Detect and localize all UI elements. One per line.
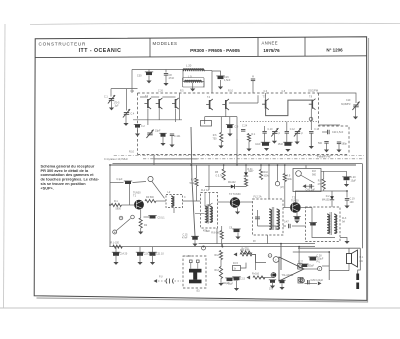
- FM output link drop: [153, 155, 155, 159]
- trimmer capacitor C3: [146, 130, 153, 138]
- resistor R2 750: [139, 218, 142, 228]
- FL2 1A core line b: [207, 204, 209, 224]
- transistor T5: [290, 202, 301, 213]
- volume pot circle: [296, 171, 302, 177]
- resistor R16 1k5: [253, 276, 265, 279]
- svg-text:L 9: L 9: [188, 75, 192, 79]
- capacitor C5 0.1: [148, 216, 156, 219]
- wire R8 top: [221, 226, 223, 231]
- svg-text:R.15: R.15: [233, 263, 239, 265]
- transistor FM stage 4: [206, 99, 213, 110]
- wire C30a gnd lead: [272, 283, 274, 286]
- svg-text:(E): (E): [197, 291, 200, 293]
- svg-text:R.L-320: R.L-320: [111, 242, 120, 245]
- wire T5 collector up: [295, 191, 323, 202]
- svg-text:P.U: P.U: [159, 277, 163, 279]
- trimmer capacitor C4: [123, 109, 130, 117]
- capacitor C5 fm: [159, 133, 166, 137]
- wire FL2 2A to T5: [283, 207, 290, 209]
- svg-text:15nF: 15nF: [278, 144, 284, 146]
- wire box feed vertical: [298, 247, 300, 264]
- resistor below C24: [247, 134, 250, 142]
- junction circle M: [119, 216, 123, 220]
- wire D2 top: [331, 191, 333, 196]
- ground below C15b: [192, 244, 197, 247]
- svg-text:FL2 2A: FL2 2A: [254, 196, 262, 199]
- capacitor C8: [164, 74, 168, 76]
- coil L2 winding: [171, 196, 174, 207]
- ferrite terminal stub a: [190, 263, 192, 269]
- wire T3 collector: [240, 201, 252, 203]
- wire C20 down: [346, 181, 348, 185]
- diode D3 MA7: [244, 172, 248, 176]
- resistor RL 320 on bus: [113, 245, 123, 248]
- capacitor C15 100uF: [232, 277, 240, 280]
- junction dot 7: [260, 164, 262, 166]
- capacitor C21 10uF: [148, 252, 156, 256]
- wire R14 out: [252, 254, 256, 270]
- resistor below D3: [244, 178, 247, 186]
- junction dot 16: [346, 190, 348, 192]
- junction circle N: [131, 215, 135, 219]
- wire R4 to L2: [156, 200, 166, 202]
- wire FM internal drop a3: [175, 109, 177, 123]
- svg-text:0,47: 0,47: [284, 221, 289, 224]
- wire L20 to node: [203, 70, 212, 72]
- junction circle osc: [309, 117, 313, 121]
- wire R15 link: [241, 263, 247, 268]
- ground below C15: [234, 288, 239, 291]
- wire T5 to FL3: [301, 207, 312, 209]
- wire L2 bottom drop: [173, 208, 175, 214]
- wire C20 leads: [322, 131, 328, 133]
- wire C8 feed: [165, 70, 167, 73]
- wire L9 left leg: [183, 71, 186, 82]
- FL2 2A core line a: [271, 207, 273, 230]
- FL2 2A tuning capacitor: [255, 217, 260, 219]
- wire R10 top: [260, 165, 262, 170]
- trimmer P2 fm: [294, 128, 301, 136]
- speaker feed stub: [348, 248, 350, 253]
- wire FM internal drop a2: [147, 109, 149, 126]
- capacitor C15b 47nF: [191, 236, 199, 240]
- wire T5 emitter: [296, 213, 298, 217]
- capacitor T5 emitter: [293, 217, 300, 220]
- junction dot 13: [280, 243, 282, 245]
- wire P1 lead: [273, 133, 275, 141]
- wire R6 lead: [220, 142, 222, 146]
- capacitor C27 100uF: [301, 264, 308, 267]
- wire C19b top: [346, 191, 348, 198]
- resistor R9 27k: [322, 179, 325, 189]
- wire slanted AGC: [117, 219, 131, 231]
- junction dot 3: [236, 164, 238, 166]
- wire P2 lead: [296, 133, 298, 141]
- ground below P2: [295, 142, 300, 145]
- svg-text:C20 1,5nF: C20 1,5nF: [332, 131, 344, 134]
- capacitor osc feed top: [251, 79, 255, 81]
- junction dot 14: [298, 246, 300, 248]
- junction circle T7: [273, 257, 279, 263]
- wire C10 top lead: [264, 126, 266, 131]
- wire C3 stub: [110, 182, 124, 184]
- svg-text:G 5,7k: G 5,7k: [216, 176, 224, 178]
- transistor FM stage 5: [222, 99, 229, 110]
- jack dash link 2: [175, 280, 182, 282]
- ferrite terminal stub b: [197, 263, 199, 269]
- svg-text:FM: FM: [131, 90, 134, 93]
- svg-text:R4 500: R4 500: [146, 196, 154, 199]
- junction dot 4: [268, 164, 270, 166]
- capacitor C31 b: [278, 280, 285, 283]
- wire FM stage stub up: [257, 95, 259, 103]
- svg-text:R.10: R.10: [228, 91, 234, 93]
- resistor R12a: [219, 251, 222, 260]
- FL2 2A bottom wire: [258, 226, 277, 230]
- wire R8 bottom: [221, 239, 223, 247]
- trimmer capacitor C2 input: [108, 95, 115, 103]
- resistor R10 100k: [259, 170, 262, 180]
- ferrite rod antenna: [189, 269, 202, 284]
- chassis dash line lower: [143, 158, 364, 160]
- svg-text:C5 0,1: C5 0,1: [158, 217, 166, 220]
- wire C16 feed: [212, 71, 221, 76]
- wire R3 top: [196, 165, 198, 178]
- junction dot 11: [222, 246, 224, 248]
- wire C24b right: [292, 225, 306, 227]
- wire FM internal drop v1: [178, 93, 180, 120]
- svg-text:C.26: C.26: [158, 91, 164, 93]
- FM module dashed border left: [137, 93, 139, 155]
- wire C31b gnd lead: [281, 283, 283, 287]
- wire C17 lead: [326, 143, 328, 149]
- junction dot 8: [277, 164, 279, 166]
- header divider 3: [304, 37, 306, 56]
- svg-text:C.15: C.15: [240, 279, 246, 281]
- svg-text:C.18: C.18: [314, 129, 320, 131]
- FL2 1A primary winding: [205, 206, 208, 223]
- wire R12b gnd lead: [220, 279, 222, 284]
- wire top supply rail: [132, 69, 183, 71]
- svg-text:500k: 500k: [190, 183, 196, 185]
- junction dot 6: [245, 164, 247, 166]
- resistor R8 6k8: [220, 231, 223, 240]
- FM module small box: [201, 121, 212, 127]
- wire R5 top: [223, 165, 225, 169]
- capacitor C20 10uF: [342, 177, 350, 180]
- wire into FL2 left: [195, 213, 205, 215]
- wire FM long drop left: [191, 127, 195, 236]
- ground FL3: [344, 241, 349, 244]
- svg-text:MA102: MA102: [322, 198, 330, 201]
- svg-text:CAL.2µF: CAL.2µF: [306, 188, 316, 191]
- svg-text:R.1: R.1: [114, 200, 118, 203]
- ground below C1: [135, 134, 140, 137]
- header divider 2: [257, 38, 259, 57]
- arrow feedback R16: [247, 276, 251, 280]
- ground below C23 250: [137, 262, 142, 265]
- wire C22 lead: [338, 144, 340, 150]
- wire cap C23 250 gnd lead: [139, 256, 141, 262]
- wire apex out: [304, 268, 318, 270]
- junction dot 1: [109, 164, 111, 166]
- wire osc couple: [319, 124, 341, 126]
- svg-text:L.7A: L.7A: [186, 255, 191, 258]
- junction dot 12: [203, 246, 205, 248]
- svg-text:R+1k5: R+1k5: [252, 272, 260, 275]
- wire R12 link: [220, 260, 222, 267]
- wire FM internal drop c: [225, 108, 227, 117]
- jack dash link: [158, 280, 166, 282]
- wire FM long drop right: [236, 139, 238, 165]
- FL3 primary winding: [327, 214, 330, 233]
- svg-text:100k: 100k: [264, 176, 270, 178]
- wire cap C21 10 feed: [152, 247, 154, 253]
- svg-text:C.1: C.1: [104, 96, 108, 99]
- capacitor C14 20uF: [112, 252, 120, 256]
- junction circle B: [301, 279, 305, 283]
- wire antenna input: [111, 88, 138, 90]
- output jack: [356, 274, 359, 290]
- ferrite antenna terminals: [190, 260, 200, 263]
- wire diode row b: [235, 185, 246, 188]
- wire FL2 2A to bus: [267, 235, 269, 244]
- capacitor C1 15pF: [134, 124, 141, 127]
- wire C5 left lead: [144, 216, 150, 218]
- ground below D1 chain: [246, 149, 251, 152]
- FL2 2A primary winding: [269, 209, 272, 230]
- wire FM internal row 3: [205, 116, 237, 118]
- ground below C5: [160, 143, 165, 146]
- svg-text:R14 4,7k: R14 4,7k: [240, 249, 250, 252]
- FL2 1A secondary winding: [210, 206, 213, 223]
- svg-text:N° 1206: N° 1206: [326, 48, 343, 53]
- svg-text:C19: C19: [346, 99, 351, 102]
- svg-text:C.27: C.27: [298, 261, 304, 264]
- ground below C17: [324, 150, 329, 153]
- svg-text:9V: 9V: [253, 241, 256, 243]
- svg-text:R.8 6k8: R.8 6k8: [211, 232, 220, 235]
- wire cap C14 20 feed: [115, 247, 117, 253]
- wire C12 top lead: [286, 122, 288, 132]
- svg-text:R.34: R.34: [248, 169, 254, 171]
- wire C10 mid lead: [264, 133, 266, 142]
- wire D1 chain lead: [248, 142, 250, 149]
- speaker HP1: [347, 250, 358, 267]
- svg-text:9A: 9A: [342, 221, 345, 224]
- volume pot wiper: [301, 175, 315, 183]
- inductor L9: [185, 80, 202, 83]
- IF transformer FL2 2A box: [253, 199, 284, 235]
- FL2 2A cap leads: [257, 210, 259, 226]
- inductor L20: [183, 69, 204, 72]
- svg-text:ANNEE: ANNEE: [262, 41, 278, 46]
- svg-text:MODELES: MODELES: [153, 41, 178, 46]
- wire R1 to T1: [122, 204, 135, 206]
- svg-text:5600: 5600: [116, 208, 122, 211]
- capacitor C19b: [345, 199, 349, 201]
- wire D2 net: [324, 190, 347, 192]
- capacitor C12: [285, 132, 289, 134]
- diode D2: [330, 196, 334, 200]
- resistor R6 750: [220, 133, 223, 143]
- arrow right C29: [318, 282, 322, 286]
- capacitor C24b 0.47: [289, 224, 291, 228]
- wire C19b bottom: [346, 200, 348, 205]
- wire FL2 out bottom: [216, 228, 218, 244]
- wire pot box feed: [321, 170, 347, 172]
- capacitor C23 250uF: [136, 252, 144, 256]
- wire rail to FL2 2A: [268, 165, 270, 199]
- svg-text:C.2: C.2: [141, 125, 145, 128]
- wire antenna cap drop: [110, 89, 112, 97]
- arrow feedback R14: [234, 252, 238, 256]
- wire C1 lead: [137, 128, 139, 134]
- IF transformer FL3 box: [306, 207, 341, 242]
- svg-text:C.101: C.101: [174, 135, 181, 138]
- scan page edge left: [4, 24, 6, 308]
- power bus right: [298, 247, 360, 249]
- wire osc feed drop: [252, 81, 254, 93]
- ferrite antenna dashed box: [183, 256, 206, 288]
- resistor R11 220k: [283, 174, 286, 182]
- svg-text:220k: 220k: [287, 178, 293, 181]
- wire FM bracket3 drop: [310, 109, 312, 130]
- FM module dashed border bottom: [138, 154, 350, 156]
- wire C3 to junction: [133, 182, 147, 183]
- wire C24b left: [283, 225, 286, 227]
- FL3 coupling capacitor: [309, 223, 317, 226]
- svg-text:500: 500: [318, 142, 323, 145]
- FM output link: [154, 159, 198, 165]
- right side long vertical: [361, 164, 363, 249]
- ground below C16: [218, 87, 223, 90]
- header divider 1: [149, 38, 151, 57]
- inductor L9 shield box: [183, 78, 205, 88]
- trimmer P1 fm: [271, 128, 278, 136]
- ground below C101: [169, 145, 174, 148]
- svg-text:100: 100: [350, 201, 355, 204]
- svg-text:C.12: C.12: [290, 129, 296, 131]
- wire junction diagonal: [152, 182, 165, 199]
- wire rail to FL2 1A: [208, 165, 210, 190]
- terminal box upper: [298, 264, 303, 269]
- wire FM bracket2 stub up: [265, 93, 267, 100]
- svg-text:180p: 180p: [342, 143, 348, 146]
- wire trimmer to ground: [355, 107, 357, 117]
- chassis dash line upper: [114, 155, 364, 157]
- ground below C30 a: [270, 286, 275, 289]
- wire osc feed stub: [252, 76, 254, 78]
- FM module dashed border top: [138, 92, 319, 94]
- FL3 internal wire: [312, 208, 335, 238]
- ground below C10 col: [264, 148, 269, 151]
- junction circle 4: [268, 254, 272, 258]
- capacitor C24 fm: [241, 130, 245, 132]
- svg-text:1,5nF: 1,5nF: [224, 79, 231, 82]
- ground below C31 b: [279, 287, 284, 290]
- wire cap C21 10 gnd lead: [152, 256, 154, 262]
- svg-text:47nF: 47nF: [169, 77, 175, 80]
- svg-text:750: 750: [213, 138, 218, 141]
- wire R11 top: [284, 165, 286, 174]
- capacitor C18 col: [309, 132, 313, 134]
- wire T1 emitter drop: [140, 210, 142, 219]
- ground below T5: [294, 221, 299, 224]
- junction circle osc feed: [148, 176, 153, 181]
- svg-text:MA102: MA102: [228, 181, 236, 184]
- jack arrow: [154, 279, 158, 283]
- ground below C8: [163, 83, 168, 86]
- speaker bottom link: [329, 270, 349, 272]
- resistor R12b: [219, 267, 222, 279]
- svg-text:CONSTRUCTEUR: CONSTRUCTEUR: [39, 41, 87, 46]
- speaker net vertical: [328, 252, 330, 280]
- resistor R5 150k: [222, 169, 225, 180]
- wire C20 feed: [346, 171, 348, 176]
- svg-text:C.15: C.15: [182, 234, 188, 237]
- capacitor C13 500uF: [225, 278, 233, 281]
- ground below C19b: [344, 206, 349, 209]
- scan page edge top: [30, 23, 400, 24]
- junction dot 2: [190, 164, 192, 166]
- wire R3 bottom: [196, 186, 198, 201]
- FL3 ground stub: [340, 238, 347, 242]
- ground below C20: [344, 184, 349, 187]
- wire FM internal drop a: [158, 108, 160, 120]
- FL2 1A core line a: [206, 204, 208, 224]
- transistor FM stage 7: [309, 99, 316, 110]
- wire cap C14 20 gnd lead: [115, 256, 117, 262]
- junction circle A: [113, 230, 117, 234]
- svg-text:C.9: C.9: [235, 126, 239, 129]
- ground below R12b: [218, 283, 223, 286]
- transistor T3: [230, 197, 240, 207]
- svg-text:500µF: 500µF: [223, 283, 230, 285]
- jack plug symbol: [166, 279, 174, 284]
- wire C30 to ground: [148, 76, 150, 81]
- svg-text:(17): (17): [280, 187, 284, 189]
- capacitor C16: [216, 76, 224, 79]
- wire C30 feed: [148, 70, 150, 72]
- wire top feed row: [293, 251, 329, 253]
- ground below L9: [190, 89, 195, 92]
- wire junction drop: [277, 165, 279, 182]
- ground below C9 fm: [227, 134, 232, 137]
- svg-text:C.10: C.10: [268, 129, 274, 131]
- capacitor C30 a: [269, 280, 276, 283]
- transistor T6 driver: [271, 272, 277, 278]
- FL2 2A core line b: [273, 207, 275, 230]
- wire FM internal row 4: [229, 102, 258, 104]
- capacitor C30: [145, 72, 153, 75]
- svg-text:C30: C30: [137, 75, 142, 78]
- audio feed vertical: [280, 244, 282, 270]
- svg-text:C.24: C.24: [242, 125, 248, 128]
- FM module dashed border osc step: [319, 93, 350, 155]
- FL2 1A lead b: [209, 193, 211, 207]
- wire C9 gnd lead: [237, 233, 239, 237]
- wire FM internal row 1b: [151, 96, 159, 98]
- junction dot 9: [284, 164, 286, 166]
- wire T1 base row: [110, 204, 111, 206]
- ground below T3: [235, 212, 240, 215]
- wire R6 stub up: [220, 117, 222, 133]
- wire C9 stub up: [229, 117, 231, 125]
- ground below C21 10: [150, 262, 155, 265]
- svg-text:T.6L AD162: T.6L AD162: [282, 274, 295, 277]
- bottom bus upper: [199, 243, 316, 245]
